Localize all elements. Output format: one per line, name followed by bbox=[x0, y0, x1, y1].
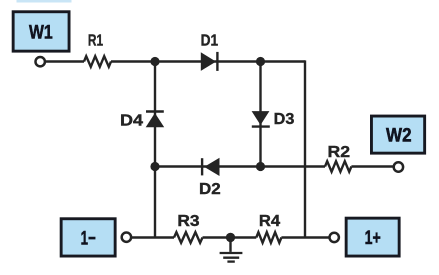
svg-text:1+: 1+ bbox=[365, 228, 381, 249]
svg-text:D2: D2 bbox=[199, 181, 221, 198]
svg-text:W1: W1 bbox=[29, 23, 53, 44]
svg-text:R1: R1 bbox=[88, 33, 103, 50]
svg-text:D3: D3 bbox=[274, 111, 295, 128]
svg-text:W2: W2 bbox=[386, 125, 412, 146]
svg-text:R3: R3 bbox=[177, 213, 199, 230]
svg-text:1−: 1− bbox=[81, 229, 96, 250]
svg-text:R2: R2 bbox=[328, 144, 351, 161]
svg-text:D1: D1 bbox=[201, 33, 219, 50]
svg-text:D4: D4 bbox=[120, 112, 143, 129]
svg-text:R4: R4 bbox=[259, 213, 280, 230]
